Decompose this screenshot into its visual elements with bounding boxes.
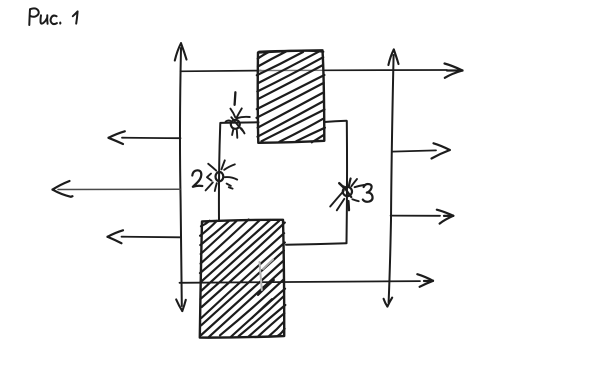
wire: right branch arrow 1 bbox=[392, 150, 436, 151]
arrowhead: left branch 2 bbox=[53, 181, 73, 197]
valve symbol 1 bbox=[226, 108, 250, 137]
label "3" bbox=[363, 184, 373, 202]
wire: right vertical bus bbox=[389, 55, 394, 303]
wire: valve 3 branch vertical bbox=[346, 121, 349, 243]
arrowhead: bottom flow line (right) bbox=[417, 274, 433, 287]
label "1" bbox=[233, 92, 236, 105]
arrowhead: left branch 3 bbox=[108, 230, 124, 243]
block: bottom hatched unit, hatching bbox=[200, 220, 285, 338]
wire: valve 3 branch horizontal bottom (corner to bottom block) bbox=[286, 243, 347, 245]
block: top hatched unit, outline bbox=[258, 50, 325, 143]
wire: right branch arrow 2 bbox=[391, 215, 440, 217]
wire: left branch arrow 1 bbox=[122, 137, 181, 140]
wire: bottom flow line (left bus to right, through bottom block) bbox=[180, 281, 421, 283]
label "2" bbox=[192, 170, 202, 187]
block: bottom hatched unit, outline bbox=[200, 220, 284, 338]
wire: valve 1/2 branch vertical (corner down to bottom block) bbox=[219, 123, 220, 220]
arrowhead: right branch 1 bbox=[432, 143, 450, 158]
valve symbol 2 bbox=[206, 160, 238, 191]
arrowhead: right bus bottom (down) bbox=[384, 298, 393, 307]
wire: left vertical bus bbox=[180, 48, 182, 306]
wire: top flow line (left bus to right, through top block) bbox=[181, 70, 448, 71]
figure caption "Рис. 1" (hand-lettered) bbox=[29, 8, 77, 25]
arrowhead: left branch 1 bbox=[109, 131, 125, 144]
block: bottom hatched unit, faint pencil smudges bbox=[252, 260, 274, 319]
arrowhead: left bus top (up) bbox=[175, 43, 187, 60]
wire: left branch arrow 2 bbox=[58, 188, 180, 190]
valve symbol 3 bbox=[330, 179, 364, 211]
block: top hatched unit, hatching bbox=[257, 51, 325, 142]
arrowhead: right branch 2 bbox=[437, 210, 454, 224]
wire: left branch arrow 3 bbox=[122, 236, 181, 239]
wire: valve 3 branch horizontal top (top block to corner) bbox=[325, 121, 347, 122]
arrowhead: left bus bottom (down) bbox=[176, 300, 186, 312]
arrowhead: top flow line (right) bbox=[445, 64, 463, 78]
wire: valve 1 branch horizontal (top block to corner) bbox=[221, 121, 259, 124]
arrowhead: right bus top (up) bbox=[388, 50, 398, 66]
